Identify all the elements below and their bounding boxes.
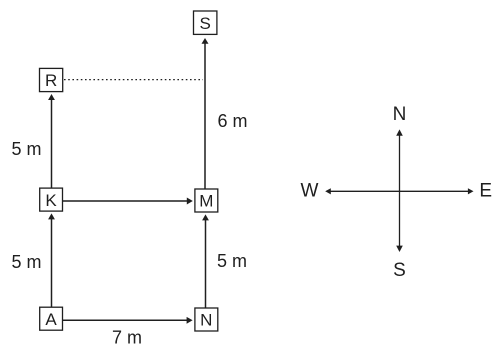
node M (box): [195, 189, 218, 212]
wire K-M (horizontal arrow from K right to M): [63, 198, 193, 205]
svg-text:5 m: 5 m: [11, 139, 41, 159]
svg-text:E: E: [479, 181, 492, 202]
svg-text:5 m: 5 m: [217, 251, 247, 271]
node S (box): [194, 11, 217, 34]
wire K-R (vertical arrow from K up to R): [48, 94, 55, 188]
node A (box): [40, 307, 63, 330]
svg-text:R: R: [45, 71, 57, 90]
compass horizontal line with arrowheads (W-E axis): [325, 188, 473, 194]
node N (box): [195, 308, 218, 331]
svg-text:M: M: [199, 192, 213, 211]
wire M-S (vertical arrow from M up to S): [202, 38, 209, 189]
dotted line R to M-S line: [64, 79, 203, 81]
svg-text:W: W: [301, 181, 319, 202]
node K (box): [40, 188, 63, 211]
svg-text:S: S: [393, 260, 406, 281]
svg-text:6 m: 6 m: [217, 111, 247, 131]
svg-text:5 m: 5 m: [11, 252, 41, 272]
svg-text:K: K: [45, 191, 57, 210]
svg-text:7 m: 7 m: [112, 328, 142, 348]
wire N-M (vertical arrow from N up to M): [202, 214, 209, 308]
svg-text:S: S: [200, 14, 211, 33]
compass vertical line with arrowheads (N-S axis): [396, 129, 403, 252]
svg-text:A: A: [45, 310, 57, 329]
svg-text:N: N: [393, 104, 407, 125]
wire A-K (vertical arrow from A up to K): [48, 213, 55, 307]
wire A-N (horizontal arrow from A right to N): [63, 317, 193, 324]
svg-text:N: N: [200, 311, 212, 330]
node R (box): [40, 68, 63, 91]
